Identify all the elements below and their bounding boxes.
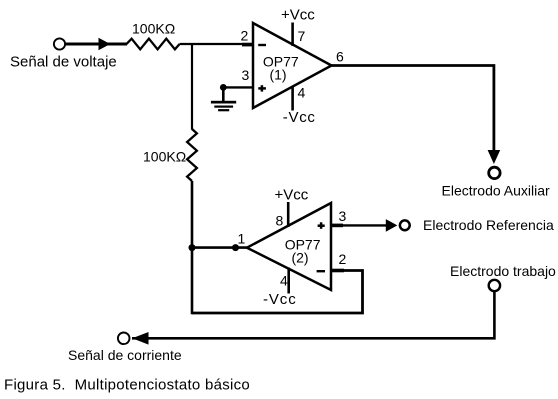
svg-text:Electrodo Auxiliar: Electrodo Auxiliar [442,183,551,199]
pin 2 stub [242,43,254,47]
terminal circle Señal de corriente [118,333,130,345]
svg-text:4: 4 [298,85,306,101]
svg-text:3: 3 [242,67,250,83]
resistor R2 100KΩ vertical [187,129,197,181]
svg-text:2: 2 [241,27,249,43]
op-amp U2 OP77 (2) triangle (mirrored, points left) [247,203,331,290]
plus sign U1 [258,87,266,90]
svg-text:6: 6 [336,49,344,65]
ground stub [222,87,225,101]
pin 2 stub U2 [331,269,344,273]
svg-text:+Vcc: +Vcc [281,7,315,24]
svg-text:+Vcc: +Vcc [275,187,309,204]
arrowhead right on input wire [99,38,111,50]
ground symbol [211,101,236,104]
svg-text:4: 4 [280,273,288,289]
minus sign U1 [258,44,266,46]
junction dot near pin1 [232,244,239,251]
plus sign U2 [318,224,325,227]
svg-text:2: 2 [339,251,347,267]
wire junction down from node to R2 [191,44,193,130]
svg-text:Señal de corriente: Señal de corriente [68,347,182,363]
terminal circle Electrodo Referencia [400,220,410,230]
pin 2 feedback wire U2 [192,271,363,314]
svg-text:Electrodo trabajo: Electrodo trabajo [450,263,556,279]
svg-text:3: 3 [339,208,347,224]
svg-text:Electrodo Referencia: Electrodo Referencia [423,217,554,233]
arrowhead down auxiliar [488,150,501,164]
arrowhead right referencia [386,219,398,232]
svg-text:(1): (1) [269,67,286,83]
arrowhead left corriente [132,332,148,345]
wire resistor to op-amp pin2 [180,43,253,45]
svg-text:(2): (2) [291,250,308,266]
wire input to resistor [66,43,127,46]
pin 4 -Vcc line U1 [291,87,294,111]
wire pin3 to referencia [343,224,387,226]
input terminal (Señal de voltaje) [54,38,65,49]
wire pin3 to ground [223,86,253,88]
resistor R1 100KΩ horizontal [127,39,180,50]
wire trabajo down and left to corriente [132,292,494,339]
svg-text:1: 1 [238,231,246,247]
svg-text:100KΩ: 100KΩ [143,148,186,164]
pin 7 +Vcc line U1 [291,23,294,47]
minus sign U2 [317,270,325,272]
op-amp U1 OP77 (1) triangle [253,23,332,108]
svg-text:100KΩ: 100KΩ [132,21,175,37]
terminal circle Electrodo trabajo [489,280,500,291]
svg-text:8: 8 [276,213,284,229]
wire U1 output to auxiliar electrode [332,66,494,152]
svg-text:7: 7 [298,28,306,44]
svg-text:Señal de voltaje: Señal de voltaje [10,54,117,71]
pin 4 line U2 [287,268,290,294]
wire node to pin1 U2 [192,246,248,249]
junction dot left [189,244,196,251]
pin 8 line U2 [287,202,290,227]
pin 3 stub U2 [331,224,343,228]
svg-text:-Vcc: -Vcc [263,291,297,308]
svg-text:Figura 5. Multipotenciostato: Figura 5. Multipotenciostato básico [4,377,250,394]
terminal circle Electrodo Auxiliar [489,167,500,178]
svg-text:-Vcc: -Vcc [283,109,316,126]
junction dot at ground stub [220,84,227,91]
wire R2 down to node and feedback bottom [191,181,194,314]
